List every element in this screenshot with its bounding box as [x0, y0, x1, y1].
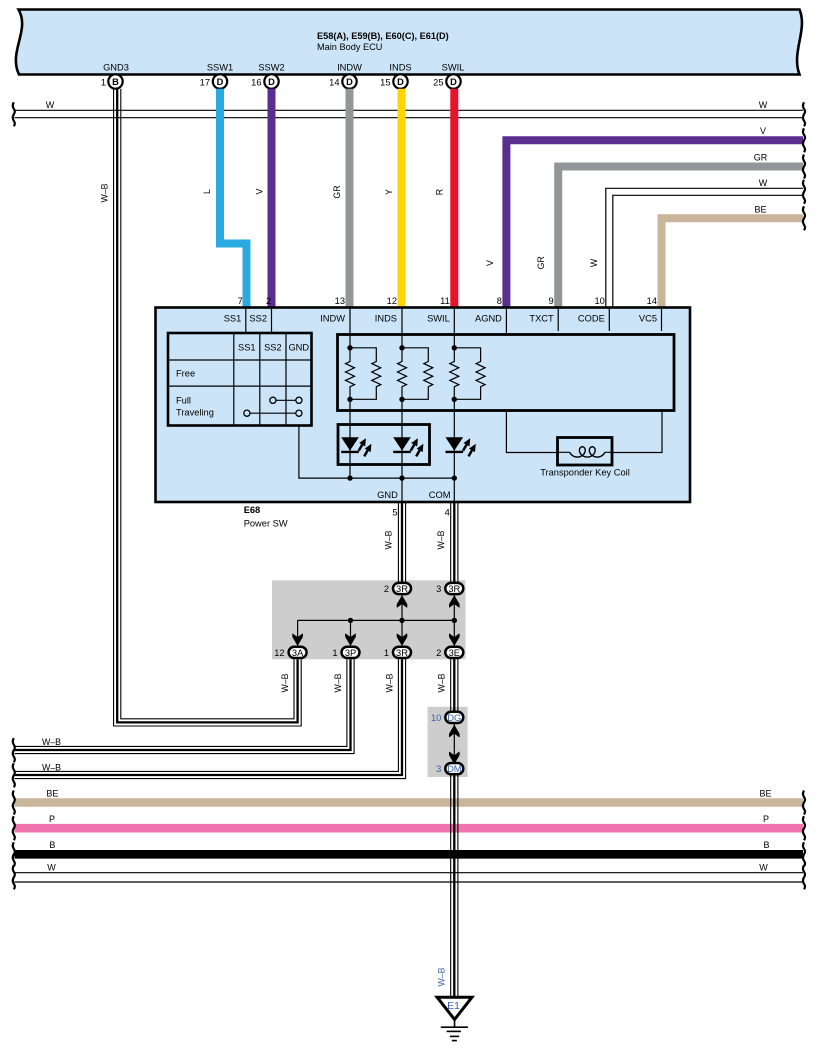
svg-text:W–B: W–B	[436, 530, 446, 549]
SECTION: buses	[13, 100, 805, 889]
svg-text:W–B: W–B	[42, 737, 61, 747]
svg-text:W–B: W–B	[437, 967, 447, 986]
switch contact SS1-GND	[250, 412, 296, 414]
wire DG to DM	[453, 724, 455, 763]
pin 1 connector B of GND3	[108, 74, 122, 88]
wire SSW2 V (violet)	[268, 89, 276, 307]
switch state table	[168, 333, 312, 426]
svg-text:W–B: W–B	[333, 673, 343, 692]
component transponder key coil	[558, 438, 613, 466]
svg-text:16: 16	[251, 77, 261, 87]
ECU banner E58-E61 Main Body ECU	[16, 10, 802, 75]
ground symbol E1	[437, 997, 472, 1019]
svg-text:E68: E68	[244, 505, 261, 515]
node break symbol W right mid	[803, 180, 805, 204]
svg-text:W: W	[47, 862, 56, 872]
arrow up into 3R (GND)	[397, 596, 407, 607]
svg-text:3P: 3P	[345, 648, 356, 658]
svg-text:3: 3	[436, 764, 441, 774]
SECTION: banner	[16, 10, 802, 89]
svg-text:3R: 3R	[448, 584, 460, 594]
pin 17 connector D of SSW1	[213, 74, 227, 88]
svg-text:GND: GND	[377, 490, 398, 500]
node break symbols P bus	[13, 816, 15, 840]
svg-text:GND: GND	[288, 343, 309, 353]
wire AGND V (violet) to right edge	[506, 140, 803, 307]
svg-text:SSW2: SSW2	[258, 63, 284, 73]
wire P bus	[15, 824, 804, 833]
svg-text:Power SW: Power SW	[244, 519, 288, 529]
wire W bus top (white wire outline)	[15, 110, 804, 117]
LED indicator INDS	[393, 437, 411, 450]
svg-text:Free: Free	[176, 369, 195, 379]
svg-text:D: D	[217, 77, 224, 87]
svg-text:DM: DM	[447, 764, 461, 774]
svg-text:12: 12	[387, 296, 397, 306]
svg-text:17: 17	[200, 77, 210, 87]
wire INDW GR (gray)	[346, 89, 354, 307]
svg-text:E1: E1	[447, 1000, 460, 1012]
svg-text:3A: 3A	[292, 648, 304, 658]
wire SSW1 L (light blue)	[220, 89, 247, 307]
svg-text:E58(A), E59(B), E60(C), E61(D): E58(A), E59(B), E60(C), E61(D)	[317, 31, 449, 41]
svg-text:SS1: SS1	[224, 314, 242, 324]
pin 15 connector D of INDS	[393, 74, 407, 88]
svg-text:COM: COM	[429, 490, 451, 500]
svg-text:Traveling: Traveling	[176, 408, 214, 418]
svg-text:8: 8	[497, 296, 502, 306]
shading DG DM block	[428, 707, 468, 777]
svg-text:V: V	[485, 260, 495, 266]
svg-text:10: 10	[594, 296, 604, 306]
svg-text:P: P	[49, 814, 55, 824]
node break symbols B bus	[13, 842, 15, 866]
node break symbol right of top W bus	[803, 102, 805, 126]
svg-text:10: 10	[431, 713, 441, 723]
svg-text:GR: GR	[332, 185, 342, 198]
SECTION: colored wires	[100, 89, 805, 726]
svg-text:7: 7	[238, 296, 243, 306]
svg-text:25: 25	[433, 77, 443, 87]
svg-text:Full: Full	[176, 396, 191, 406]
svg-text:12: 12	[274, 648, 284, 658]
arrow down into 3A	[293, 634, 303, 645]
svg-text:W–B: W–B	[100, 183, 110, 202]
svg-text:15: 15	[380, 77, 390, 87]
svg-text:3: 3	[436, 584, 441, 594]
resistor block box	[338, 335, 675, 411]
svg-text:W: W	[589, 258, 599, 267]
svg-text:3R: 3R	[396, 584, 408, 594]
connector 1 3P	[342, 647, 360, 658]
wire W-B bus 2	[15, 659, 406, 779]
node break symbol V right	[803, 128, 805, 152]
svg-text:TXCT: TXCT	[529, 314, 554, 324]
svg-text:W–B: W–B	[42, 762, 61, 772]
svg-text:B: B	[763, 840, 769, 850]
svg-text:11: 11	[440, 296, 450, 306]
node break symbol W-B bus2	[13, 763, 15, 787]
svg-text:INDW: INDW	[320, 314, 345, 324]
node dots junction	[348, 618, 353, 623]
wire W-B 3E to DG	[451, 659, 458, 712]
svg-text:SS1: SS1	[238, 343, 256, 353]
svg-text:BE: BE	[46, 788, 58, 798]
connector 3 DM	[445, 763, 463, 774]
svg-text:3E: 3E	[449, 648, 460, 658]
svg-text:R: R	[434, 189, 444, 195]
wire TXCT GR (gray) to right edge	[558, 167, 803, 308]
arrow down into 3R	[397, 634, 407, 645]
svg-text:V: V	[254, 188, 264, 194]
connector 12 3A	[289, 647, 307, 658]
node break symbols W bus bottom	[13, 865, 15, 889]
SECTION: ground	[437, 775, 472, 1041]
svg-text:CODE: CODE	[578, 314, 605, 324]
svg-text:Y: Y	[384, 189, 394, 195]
resistor pair SWIL	[450, 308, 459, 478]
wire W-B DM to E1 ground	[451, 775, 458, 997]
svg-text:D: D	[450, 77, 457, 87]
svg-text:BE: BE	[759, 788, 771, 798]
arrow down into 3P	[346, 634, 356, 645]
arrow down into DM	[449, 752, 459, 763]
wire W bus bottom	[15, 873, 804, 882]
svg-text:INDS: INDS	[375, 314, 397, 324]
svg-text:GR: GR	[536, 256, 546, 269]
arrow down into 3E	[449, 634, 459, 645]
svg-text:2: 2	[384, 584, 389, 594]
svg-text:9: 9	[549, 296, 554, 306]
wire VC5 BE (beige) to right edge	[662, 218, 804, 307]
svg-text:W–B: W–B	[385, 673, 395, 692]
svg-text:W–B: W–B	[437, 673, 447, 692]
wire W-B pin4 to 3R	[451, 502, 458, 583]
connector 2 3E	[445, 647, 463, 658]
svg-text:V: V	[760, 126, 766, 136]
pin 14 connector D of INDW	[342, 74, 356, 88]
LED block box	[338, 425, 430, 465]
SECTION: lower connectors	[272, 502, 468, 777]
svg-text:D: D	[346, 77, 353, 87]
junction block shading	[272, 580, 466, 659]
connector 10 DG	[445, 712, 463, 723]
svg-text:D: D	[268, 77, 275, 87]
svg-text:SSW1: SSW1	[207, 63, 233, 73]
component E68 Power SW box	[156, 308, 691, 503]
wire BE bus bottom	[15, 798, 804, 807]
wire INDS Y (yellow)	[398, 89, 406, 307]
connector 1 3R lower	[393, 647, 411, 658]
resistor pair INDW	[346, 308, 355, 478]
wire B bus	[15, 850, 804, 859]
svg-text:3R: 3R	[396, 648, 408, 658]
svg-text:Transponder Key Coil: Transponder Key Coil	[540, 468, 630, 478]
wire CODE W (white wire outline) to right edge	[606, 188, 803, 307]
svg-text:BE: BE	[754, 204, 766, 214]
svg-text:INDS: INDS	[389, 63, 411, 73]
LED indicator INDW	[341, 437, 359, 450]
svg-text:W: W	[759, 862, 768, 872]
wire GND column from table to rail	[299, 426, 454, 479]
svg-text:2: 2	[436, 648, 441, 658]
svg-text:GR: GR	[754, 152, 768, 162]
svg-text:SWIL: SWIL	[442, 63, 465, 73]
svg-text:W–B: W–B	[384, 530, 394, 549]
svg-text:L: L	[202, 189, 212, 194]
svg-text:1: 1	[384, 648, 389, 658]
svg-text:14: 14	[647, 296, 657, 306]
svg-text:Main Body ECU: Main Body ECU	[317, 42, 382, 52]
pin 16 connector D of SSW2	[264, 74, 278, 88]
wire GND3 W-B from pin 1 down	[114, 89, 302, 726]
node break symbol left of top W bus	[13, 102, 15, 126]
node dots on rail	[347, 475, 352, 480]
node break symbol GR right	[803, 155, 805, 179]
svg-text:W: W	[46, 100, 55, 110]
svg-text:13: 13	[335, 296, 345, 306]
LED illumination SWIL	[446, 437, 464, 450]
svg-text:P: P	[763, 814, 769, 824]
svg-text:2: 2	[266, 296, 271, 306]
node break symbol BE right top	[803, 206, 805, 230]
svg-text:1: 1	[332, 648, 337, 658]
wire links inside junction block	[298, 595, 455, 647]
svg-text:VC5: VC5	[639, 314, 657, 324]
svg-text:B: B	[112, 77, 119, 87]
pin 25 connector D of SWIL	[446, 74, 460, 88]
wire SWIL R (red)	[450, 89, 458, 307]
connector 3 3R	[445, 583, 463, 594]
svg-text:SWIL: SWIL	[427, 314, 450, 324]
svg-text:AGND: AGND	[475, 314, 502, 324]
svg-text:SS2: SS2	[249, 314, 267, 324]
arrow up into 3R (COM)	[449, 596, 459, 607]
svg-text:1: 1	[101, 77, 106, 87]
svg-text:W–B: W–B	[280, 673, 290, 692]
wire AGND to coil left	[506, 411, 557, 453]
node break symbols BE bus	[13, 791, 15, 815]
svg-text:SS2: SS2	[264, 343, 282, 353]
wire coil right to resistor block	[612, 411, 663, 453]
svg-text:W: W	[759, 100, 768, 110]
svg-text:W: W	[759, 178, 768, 188]
arrow up into DG	[449, 726, 459, 737]
node break symbol W-B bus1	[13, 738, 15, 762]
connector 2 3R	[393, 583, 411, 594]
resistor pair INDS	[398, 308, 407, 478]
wire W-B bus 1	[15, 659, 355, 754]
svg-text:14: 14	[329, 77, 339, 87]
svg-text:DG: DG	[447, 713, 461, 723]
svg-text:4: 4	[445, 508, 450, 518]
wire W-B pin5 to 3R	[398, 502, 405, 583]
svg-text:GND3: GND3	[103, 63, 129, 73]
svg-text:D: D	[397, 77, 404, 87]
svg-text:B: B	[49, 840, 55, 850]
SECTION: main box	[156, 296, 691, 529]
svg-text:INDW: INDW	[337, 63, 362, 73]
svg-text:5: 5	[392, 508, 397, 518]
switch contact SS2-GND	[276, 399, 296, 401]
